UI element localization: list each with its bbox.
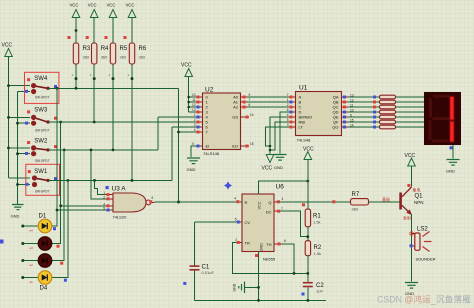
svg-text:GS: GS xyxy=(232,115,238,120)
svg-text:VCC: VCC xyxy=(405,153,416,159)
resistor RN1 xyxy=(380,95,396,99)
svg-text:U3 A: U3 A xyxy=(112,186,127,193)
wire U2 A1 to U1 B xyxy=(247,101,289,103)
resistor network pin squares xyxy=(373,96,376,99)
node origin marker (blue star) xyxy=(224,182,232,190)
svg-text:a1: a1 xyxy=(30,280,34,284)
svg-text:TR: TR xyxy=(245,241,250,246)
wire display to ground xyxy=(452,145,454,159)
wire NAND input 2 feed (from SW2 net) xyxy=(91,150,106,199)
svg-text:14: 14 xyxy=(350,124,354,128)
wire R7 to Q1 base xyxy=(369,201,400,203)
wire U2 EI to ground xyxy=(191,146,196,157)
node junctions U2 vcc tie xyxy=(187,96,190,99)
svg-text:360: 360 xyxy=(83,55,90,60)
svg-text:QG: QG xyxy=(332,125,338,130)
svg-text:CV: CV xyxy=(245,220,251,225)
U2 right pin stubs xyxy=(241,97,250,146)
svg-text:R: R xyxy=(245,200,248,205)
wire branch to SW1 lower throw xyxy=(18,184,31,186)
speaker LS2 SOUNDER xyxy=(410,227,436,262)
wire C1 to rail xyxy=(194,271,196,301)
svg-text:74LS148: 74LS148 xyxy=(203,151,220,156)
svg-text:6: 6 xyxy=(152,196,154,200)
svg-text:R4: R4 xyxy=(101,46,109,52)
U1 left pin stubs xyxy=(289,97,296,127)
svg-text:1: 1 xyxy=(194,113,196,117)
resistor R3 xyxy=(68,3,91,65)
resistor RN2 xyxy=(380,100,396,104)
svg-text:LT: LT xyxy=(299,125,304,130)
svg-text:13: 13 xyxy=(350,94,354,98)
capacitor C1 xyxy=(183,222,214,285)
transistor Q1 NPN xyxy=(382,184,424,221)
ground (U1 D pin) xyxy=(274,155,287,171)
svg-text:U6: U6 xyxy=(276,184,285,191)
svg-text:15: 15 xyxy=(250,142,254,146)
ground (below switches) xyxy=(11,205,24,219)
svg-text:7: 7 xyxy=(281,207,283,211)
U3:A output pin stub xyxy=(151,201,155,203)
wire GND chain left vertical xyxy=(17,92,19,205)
svg-text:发射: 发射 xyxy=(403,215,411,221)
svg-text:3: 3 xyxy=(287,123,289,127)
svg-text:6: 6 xyxy=(284,239,286,243)
svg-text:74LS20: 74LS20 xyxy=(113,215,128,220)
svg-text:A2: A2 xyxy=(233,105,239,110)
resistor RN4 xyxy=(380,110,396,114)
U6 CV stub and wire to C1 xyxy=(237,221,243,223)
wire branch to SW4 lower throw xyxy=(18,91,31,93)
svg-text:13: 13 xyxy=(192,108,196,112)
wire U1 LT tie xyxy=(266,127,290,146)
svg-text:11: 11 xyxy=(192,98,196,102)
wire LED column D3 (net 6) xyxy=(52,150,64,261)
resistor R4 xyxy=(86,3,109,65)
svg-text:SW-SPDT: SW-SPDT xyxy=(35,159,50,163)
svg-text:VCC: VCC xyxy=(107,3,116,8)
svg-text:NE555: NE555 xyxy=(263,257,276,262)
svg-text:U2: U2 xyxy=(205,87,214,94)
op-amp U3:A 74LS20 NAND gate xyxy=(106,186,151,220)
svg-text:74LS48: 74LS48 xyxy=(297,138,312,143)
svg-text:360: 360 xyxy=(101,55,108,60)
svg-text:GND: GND xyxy=(260,243,264,252)
svg-text:5: 5 xyxy=(103,207,105,211)
wire NAND input 4 feed (from SW4 net) xyxy=(57,209,106,211)
svg-text:VCC: VCC xyxy=(70,3,79,8)
svg-text:TH: TH xyxy=(266,242,271,247)
U6 pin numbers xyxy=(234,197,286,244)
svg-text:1.5k: 1.5k xyxy=(313,220,321,225)
svg-text:360: 360 xyxy=(120,55,127,60)
svg-text:11: 11 xyxy=(350,104,354,108)
power terminal VCC (top-left) xyxy=(2,43,13,57)
wire net SW2 run to U2 input 4 xyxy=(48,117,196,150)
svg-text:SW2: SW2 xyxy=(34,138,48,144)
svg-text:2: 2 xyxy=(287,103,289,107)
switch SW2 xyxy=(25,138,57,163)
wire C2 to rail xyxy=(307,287,309,300)
LED D3 (off) xyxy=(21,254,63,268)
svg-text:5: 5 xyxy=(235,218,237,222)
svg-text:SW1: SW1 xyxy=(34,169,48,175)
svg-text:2: 2 xyxy=(194,118,196,122)
power terminal VCC (for R1/555) xyxy=(303,147,314,160)
wire U2 A2 to U1 C xyxy=(247,106,289,108)
svg-text:3: 3 xyxy=(282,197,284,201)
svg-text:D1: D1 xyxy=(39,214,47,220)
power terminal VCC (above U2) xyxy=(181,63,193,77)
capacitor C2 xyxy=(302,282,325,296)
svg-text:R6: R6 xyxy=(139,46,147,52)
svg-text:DC: DC xyxy=(266,210,272,215)
svg-text:1uF: 1uF xyxy=(316,289,323,294)
wire emitter down to sounder and ground xyxy=(411,215,413,282)
svg-text:2: 2 xyxy=(103,195,105,199)
wire pull-up column R4 xyxy=(93,64,95,122)
U2 pin names inside xyxy=(206,95,210,149)
U2 left pin stubs xyxy=(196,97,203,146)
svg-text:GND: GND xyxy=(11,213,20,218)
wire U6 GND pin 1 to rail xyxy=(258,252,260,301)
resistor R2 xyxy=(305,241,322,256)
svg-text:a2: a2 xyxy=(30,263,34,267)
wire VCC to collector xyxy=(411,166,413,187)
svg-text:3: 3 xyxy=(194,123,196,127)
svg-text:LS2: LS2 xyxy=(417,227,428,233)
svg-text:1: 1 xyxy=(287,98,289,102)
svg-text:1.5k: 1.5k xyxy=(314,251,322,256)
wire U1 D to ground xyxy=(280,112,289,154)
ground (rotated, at U6 pin 1 net) xyxy=(233,282,259,294)
wire branch to SW2 lower throw xyxy=(18,153,31,155)
LED D2 (off) xyxy=(21,237,59,251)
svg-text:D4: D4 xyxy=(40,286,48,292)
U6 Q output stub xyxy=(274,201,279,203)
resistor RN7 xyxy=(380,125,396,129)
svg-text:7: 7 xyxy=(287,93,289,97)
resistor R5 xyxy=(105,3,128,65)
op-amp U1 74LS48 body xyxy=(296,85,342,143)
wire net SW4 run to U2 input 7 and U6 reset net xyxy=(48,88,196,202)
wire U2 VCC tie for inputs 0-3 xyxy=(189,77,196,113)
node junction VCC rail xyxy=(7,84,10,87)
op-amp U6 NE555 body xyxy=(242,184,284,262)
LED D4 (lit) xyxy=(21,271,67,292)
switch SW3 xyxy=(25,108,57,133)
wire NAND input 1 feed (from SW1 net) xyxy=(95,180,107,194)
svg-text:GND: GND xyxy=(233,283,237,291)
svg-text:GND: GND xyxy=(274,165,283,170)
svg-text:CSDN @鸿运_沉鱼落雁: CSDN @鸿运_沉鱼落雁 xyxy=(377,294,471,305)
svg-text:360: 360 xyxy=(352,207,359,212)
svg-text:9: 9 xyxy=(249,93,251,97)
7-segment display showing 1 xyxy=(424,92,461,145)
svg-text:SW-SPDT: SW-SPDT xyxy=(35,96,50,100)
svg-text:4: 4 xyxy=(234,197,236,201)
U1 pin numbers right xyxy=(350,94,354,128)
U1 pin numbers left xyxy=(287,93,289,127)
wire ground rail bottom xyxy=(195,299,327,301)
svg-text:SW3: SW3 xyxy=(34,108,48,114)
wires network to display xyxy=(396,97,425,127)
wire VCC rail left vertical xyxy=(8,57,10,179)
svg-text:NPN: NPN xyxy=(414,200,424,205)
U1 pin names inside xyxy=(299,95,313,130)
svg-text:VCC: VCC xyxy=(88,3,97,8)
resistor network wires U1 QA-QG xyxy=(348,97,380,127)
wire pull-up column R3 xyxy=(75,64,77,88)
svg-text:R7: R7 xyxy=(352,192,360,198)
wire U1 RBI tie xyxy=(270,122,289,150)
resistor R7 xyxy=(351,192,369,212)
svg-text:基极: 基极 xyxy=(382,196,390,202)
svg-text:10: 10 xyxy=(350,109,354,113)
resistor R1 xyxy=(302,203,321,227)
wire R2 bottom to TR/TH net xyxy=(307,256,309,282)
svg-text:EO: EO xyxy=(232,144,238,149)
wire net SW1 run to U2 input 6 xyxy=(48,127,196,180)
wire R1 bottom to junction xyxy=(307,227,309,241)
resistor R6 xyxy=(124,3,147,65)
U6 TR stub and wire xyxy=(237,241,243,243)
op-amp U2 74LS148 body xyxy=(203,87,241,157)
svg-text:VCC: VCC xyxy=(258,201,262,209)
svg-text:14: 14 xyxy=(250,113,254,117)
U6 TH stub and wire xyxy=(274,243,282,245)
svg-text:a3: a3 xyxy=(30,246,34,250)
wire LED column D1 (net 4) xyxy=(52,88,57,226)
svg-text:5: 5 xyxy=(192,142,194,146)
svg-text:SW-SPDT: SW-SPDT xyxy=(35,190,50,194)
switch SW4 (selected) xyxy=(25,72,59,103)
svg-text:VCC: VCC xyxy=(262,166,273,172)
svg-text:集电: 集电 xyxy=(413,187,421,193)
resistor RN3 xyxy=(380,105,396,109)
wire U1 BI/RBO to VCC (down terminal) xyxy=(270,117,289,154)
svg-text:VCC: VCC xyxy=(181,63,192,69)
wire branch to SW3 upper throw xyxy=(9,116,31,118)
U6 DC stub and wire to R1/R2 junction xyxy=(274,210,281,212)
wire net SW3 run to U2 input 5 xyxy=(48,121,196,123)
svg-text:GND: GND xyxy=(187,167,196,172)
node stray blue mark at left edge xyxy=(0,240,4,244)
wire U2 A0 to U1 A xyxy=(247,96,289,98)
wire branch to SW3 lower throw xyxy=(18,122,31,124)
U2 pin numbers right xyxy=(249,93,254,146)
wire pull-up column R5 xyxy=(112,64,114,150)
svg-text:5: 5 xyxy=(287,118,289,122)
svg-text:R5: R5 xyxy=(120,46,128,52)
svg-text:7: 7 xyxy=(249,98,251,102)
power terminal VCC (down arrow below U1) xyxy=(262,155,274,172)
wire NAND output to U6 reset xyxy=(155,201,243,203)
wire VCC down to R1 xyxy=(307,160,309,210)
svg-text:VCC: VCC xyxy=(126,3,135,8)
U1 right pin stubs xyxy=(342,97,349,127)
wire branch to SW2 upper throw xyxy=(9,147,31,149)
svg-text:EI: EI xyxy=(206,144,210,149)
wire U6 Q to R7 xyxy=(279,201,351,203)
wire LED column D4 (net 7) xyxy=(52,180,68,277)
svg-text:a4: a4 xyxy=(30,229,34,233)
svg-text:4: 4 xyxy=(194,128,196,132)
wire LED column D2 (net 5) xyxy=(52,122,61,244)
power terminal VCC (Q1 collector) xyxy=(405,153,416,166)
U6 pin names inside xyxy=(245,200,251,246)
ground (below display) xyxy=(446,160,460,174)
svg-text:SW-SPDT: SW-SPDT xyxy=(35,128,50,132)
resistor RN5 xyxy=(380,115,396,119)
svg-text:6: 6 xyxy=(249,103,251,107)
svg-text:R3: R3 xyxy=(83,46,91,52)
svg-text:GND: GND xyxy=(446,169,455,174)
svg-text:9: 9 xyxy=(350,114,352,118)
wire NAND input 3 feed (from SW3 net) xyxy=(61,205,106,207)
svg-text:VCC: VCC xyxy=(2,43,13,49)
LED D1 (lit) xyxy=(21,214,56,233)
svg-text:Q1: Q1 xyxy=(415,194,424,200)
svg-text:U1: U1 xyxy=(299,85,308,92)
svg-text:15: 15 xyxy=(350,119,354,123)
U3:A input pin stubs xyxy=(106,195,113,210)
svg-text:360: 360 xyxy=(139,55,146,60)
wire branch to SW1 upper throw xyxy=(9,177,31,179)
svg-text:SW4: SW4 xyxy=(34,76,48,82)
wire branch to SW4 upper throw xyxy=(9,85,31,87)
switch SW1 (selected) xyxy=(26,164,60,195)
svg-text:10: 10 xyxy=(192,93,196,97)
svg-text:12: 12 xyxy=(350,99,354,103)
ground (below LS2) xyxy=(405,283,418,297)
svg-text:4: 4 xyxy=(287,113,289,117)
ground (below U2) xyxy=(187,158,201,172)
svg-text:12: 12 xyxy=(192,103,196,107)
svg-text:6: 6 xyxy=(287,108,289,112)
node junction GND chain xyxy=(16,122,19,125)
svg-text:VCC: VCC xyxy=(303,147,314,153)
U2 pin numbers left xyxy=(192,93,196,146)
wire pull-up column R6 xyxy=(131,64,133,180)
svg-text:Q: Q xyxy=(268,200,271,205)
resistor RN6 xyxy=(380,120,396,124)
svg-text:0.01uF: 0.01uF xyxy=(202,270,215,275)
svg-text:SOUNDER: SOUNDER xyxy=(416,257,436,262)
wire U6 VCC pin 8 xyxy=(259,181,308,194)
